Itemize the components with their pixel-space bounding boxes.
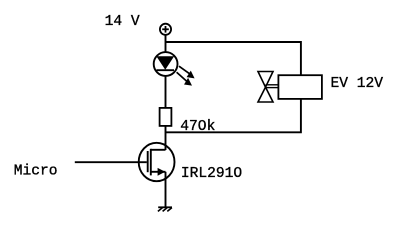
- transistor Q1 IRL2910: [139, 143, 175, 181]
- wire gate input: [75, 161, 147, 163]
- LED light arrow 2: [177, 72, 192, 85]
- svg-text:14 V: 14 V: [105, 14, 140, 30]
- svg-text:EV 12V: EV 12V: [331, 76, 384, 92]
- valve coil EV: [278, 75, 322, 99]
- wire supply to LED: [165, 35, 167, 53]
- svg-text:IRL291O: IRL291O: [181, 166, 243, 182]
- LED light arrow 1: [179, 66, 195, 78]
- wire drain node to valve: [166, 99, 301, 133]
- valve actuator link: [266, 85, 280, 88]
- wire resistor to drain: [165, 126, 167, 150]
- wire LED to resistor: [165, 76, 167, 109]
- wire source to ground: [165, 172, 167, 208]
- ground: [158, 207, 172, 211]
- valve body: [258, 72, 273, 103]
- svg-text:Micro: Micro: [14, 164, 58, 180]
- power terminal +14V: [160, 24, 171, 35]
- resistor R1 470k: [160, 108, 172, 126]
- wire top branch to valve: [166, 42, 301, 76]
- LED D1: [154, 52, 178, 76]
